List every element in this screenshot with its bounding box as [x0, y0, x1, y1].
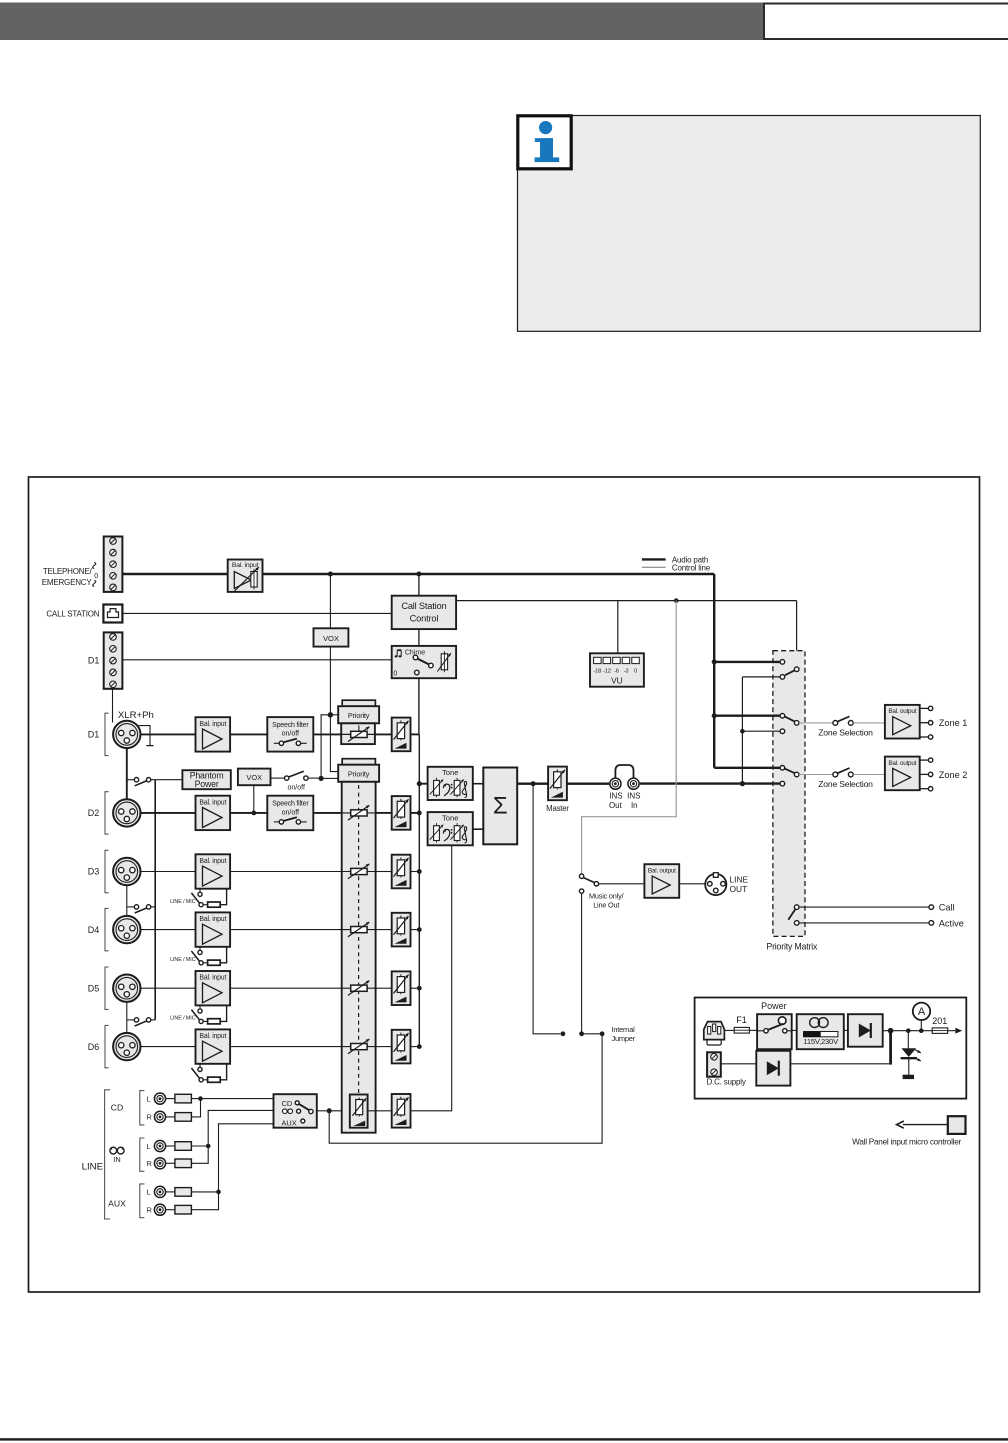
svg-text:Tone: Tone	[442, 768, 458, 777]
svg-text:CD: CD	[282, 1099, 293, 1108]
svg-text:Bal. input: Bal. input	[199, 916, 226, 923]
svg-text:L: L	[147, 1142, 151, 1151]
svg-text:Bal. input: Bal. input	[199, 799, 226, 806]
svg-text:CD: CD	[111, 1103, 123, 1113]
svg-text:-18: -18	[594, 668, 602, 674]
svg-text:D4: D4	[88, 925, 100, 935]
svg-text:XLR+Ph: XLR+Ph	[118, 710, 154, 721]
svg-text:Wall Panel input micro control: Wall Panel input micro controller	[852, 1138, 961, 1147]
svg-text:A: A	[918, 1006, 926, 1018]
svg-text:115V,230V: 115V,230V	[803, 1037, 839, 1046]
svg-text:D1: D1	[88, 730, 100, 740]
svg-text:Bal. input: Bal. input	[199, 1033, 226, 1040]
svg-text:TELEPHONE/: TELEPHONE/	[43, 567, 93, 576]
svg-text:0: 0	[393, 671, 397, 678]
svg-text:D6: D6	[88, 1042, 100, 1052]
svg-text:Line Out: Line Out	[593, 900, 619, 909]
svg-text:Zone 1: Zone 1	[939, 718, 968, 728]
svg-text:Bal. output: Bal. output	[888, 760, 916, 767]
svg-text:Bal. output: Bal. output	[888, 708, 916, 715]
svg-text:R: R	[147, 1159, 152, 1168]
svg-text:D.C. supply: D.C. supply	[707, 1078, 746, 1087]
svg-text:AUX: AUX	[108, 1198, 126, 1208]
svg-text:LINE / MIC: LINE / MIC	[170, 899, 196, 905]
svg-text:Jumper: Jumper	[612, 1034, 636, 1043]
svg-text:Bal. input: Bal. input	[232, 562, 259, 569]
svg-text:201: 201	[932, 1016, 947, 1026]
svg-text:R: R	[147, 1206, 152, 1215]
svg-text:Speech filter: Speech filter	[272, 722, 309, 729]
svg-text:Zone Selection: Zone Selection	[818, 779, 873, 789]
svg-text:R: R	[147, 1113, 152, 1122]
svg-text:F1: F1	[736, 1015, 747, 1025]
svg-text:Music only/: Music only/	[589, 891, 624, 900]
svg-text:Bal. output: Bal. output	[648, 867, 676, 874]
svg-text:Master: Master	[546, 804, 569, 813]
svg-text:Zone Selection: Zone Selection	[818, 727, 873, 737]
svg-text:LINE / MIC: LINE / MIC	[170, 1016, 196, 1022]
svg-text:Priority: Priority	[348, 770, 370, 779]
svg-text:Priority: Priority	[348, 711, 370, 720]
svg-text:Power: Power	[195, 779, 219, 789]
svg-text:Priority Matrix: Priority Matrix	[766, 942, 818, 952]
svg-text:LINE: LINE	[82, 1161, 103, 1172]
svg-text:-12: -12	[603, 668, 611, 674]
svg-text:0: 0	[634, 668, 637, 674]
svg-text:Call Station: Call Station	[401, 601, 446, 611]
svg-text:LINE / MIC: LINE / MIC	[170, 957, 196, 963]
svg-text:Control line: Control line	[672, 563, 711, 572]
svg-text:D2: D2	[88, 808, 100, 818]
svg-text:on/off: on/off	[288, 785, 305, 792]
svg-text:VOX: VOX	[246, 773, 262, 782]
svg-text:L: L	[147, 1188, 151, 1197]
svg-text:D5: D5	[88, 983, 100, 993]
svg-text:CALL STATION: CALL STATION	[46, 609, 99, 618]
svg-text:Σ: Σ	[493, 793, 508, 820]
svg-text:-6: -6	[614, 668, 619, 674]
svg-text:Bal. input: Bal. input	[199, 858, 226, 865]
svg-text:Internal: Internal	[612, 1025, 636, 1034]
svg-text:Zone 2: Zone 2	[939, 770, 968, 780]
svg-text:INS: INS	[609, 792, 622, 801]
svg-text:In: In	[631, 801, 638, 810]
svg-text:D1: D1	[88, 656, 100, 666]
svg-text:L: L	[147, 1094, 151, 1103]
svg-text:LINE: LINE	[730, 874, 749, 884]
svg-text:VOX: VOX	[323, 634, 339, 643]
svg-text:VU: VU	[611, 675, 623, 685]
svg-text:Out: Out	[609, 801, 623, 810]
svg-text:on/off: on/off	[282, 809, 299, 816]
svg-text:INS: INS	[627, 792, 640, 801]
svg-text:-3: -3	[624, 668, 629, 674]
svg-text:Power: Power	[761, 1001, 787, 1011]
svg-text:OUT: OUT	[730, 884, 748, 894]
svg-text:Speech filter: Speech filter	[272, 801, 309, 808]
svg-text:Tone: Tone	[442, 813, 458, 822]
svg-text:Call: Call	[939, 903, 955, 913]
svg-text:0: 0	[94, 573, 98, 580]
svg-text:AUX: AUX	[282, 1118, 297, 1127]
svg-text:D3: D3	[88, 867, 100, 877]
svg-text:EMERGENCY: EMERGENCY	[42, 578, 93, 587]
svg-text:IN: IN	[113, 1155, 120, 1164]
svg-text:on/off: on/off	[282, 731, 299, 738]
svg-text:Bal. input: Bal. input	[199, 721, 226, 728]
svg-text:Bal. input: Bal. input	[199, 975, 226, 982]
svg-text:Active: Active	[939, 918, 964, 928]
svg-text:Control: Control	[410, 614, 439, 624]
